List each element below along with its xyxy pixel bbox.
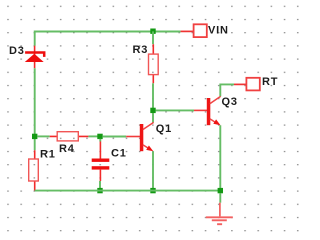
svg-text:Q1: Q1 bbox=[156, 123, 172, 135]
wire: Q3 collector to RT terminal bbox=[220, 84, 234, 96]
resistor R3 bbox=[133, 44, 159, 83]
wire: node B to Q3 base bbox=[156, 109, 195, 111]
svg-text:D3: D3 bbox=[9, 45, 25, 57]
wire: rail to R3 bbox=[152, 31, 154, 44]
resistor R4 bbox=[50, 132, 89, 155]
wire: J1 to R4 bbox=[37, 135, 50, 137]
node J1: D3 / R4 / R1 junction bbox=[32, 134, 37, 139]
node: ground rail / ground symbol junction bbox=[218, 188, 223, 193]
terminal VIN bbox=[181, 24, 229, 37]
wire: Q3 emitter to ground rail bbox=[219, 125, 221, 190]
svg-text:R3: R3 bbox=[133, 44, 149, 56]
wire: J2 to Q1 base bbox=[103, 136, 127, 138]
node B: R3 / Q1 collector / Q3 base junction bbox=[150, 108, 155, 113]
wire: node to ground symbol bbox=[219, 193, 221, 203]
node: rail / R3 junction bbox=[150, 29, 155, 34]
svg-text:R1: R1 bbox=[40, 149, 56, 161]
node J2: R4 / C1 / Q1 base junction bbox=[97, 134, 102, 139]
capacitor C1 bbox=[92, 142, 127, 182]
wire: D3 to node J1 bbox=[34, 68, 36, 150]
wire: R3 to node B bbox=[152, 83, 154, 110]
wire: VIN rail (top, from D3 corner to VIN terminal) bbox=[35, 32, 181, 46]
svg-text:Q3: Q3 bbox=[222, 96, 238, 108]
ground bbox=[206, 203, 233, 225]
zener diode D3 bbox=[9, 45, 44, 68]
node: C1 / ground rail junction bbox=[97, 188, 102, 193]
terminal RT bbox=[234, 76, 278, 90]
svg-text:R4: R4 bbox=[59, 143, 75, 155]
transistor Q1 bbox=[126, 122, 172, 151]
transistor Q3 bbox=[194, 96, 238, 125]
wire: Q1 emitter to ground rail bbox=[152, 151, 154, 190]
wire: ground rail (bottom) bbox=[35, 190, 221, 192]
wire: R4 to node J2 bbox=[88, 135, 100, 137]
wire: node B to Q1 collector bbox=[152, 113, 154, 123]
svg-text:VIN: VIN bbox=[208, 24, 229, 36]
wire: J2 to C1 bbox=[99, 139, 101, 142]
resistor R1 bbox=[29, 149, 56, 191]
svg-text:RT: RT bbox=[262, 76, 278, 88]
node: Q1 emitter / ground rail junction bbox=[150, 188, 155, 193]
svg-text:C1: C1 bbox=[111, 148, 127, 160]
wire: C1 to ground rail bbox=[99, 181, 101, 191]
